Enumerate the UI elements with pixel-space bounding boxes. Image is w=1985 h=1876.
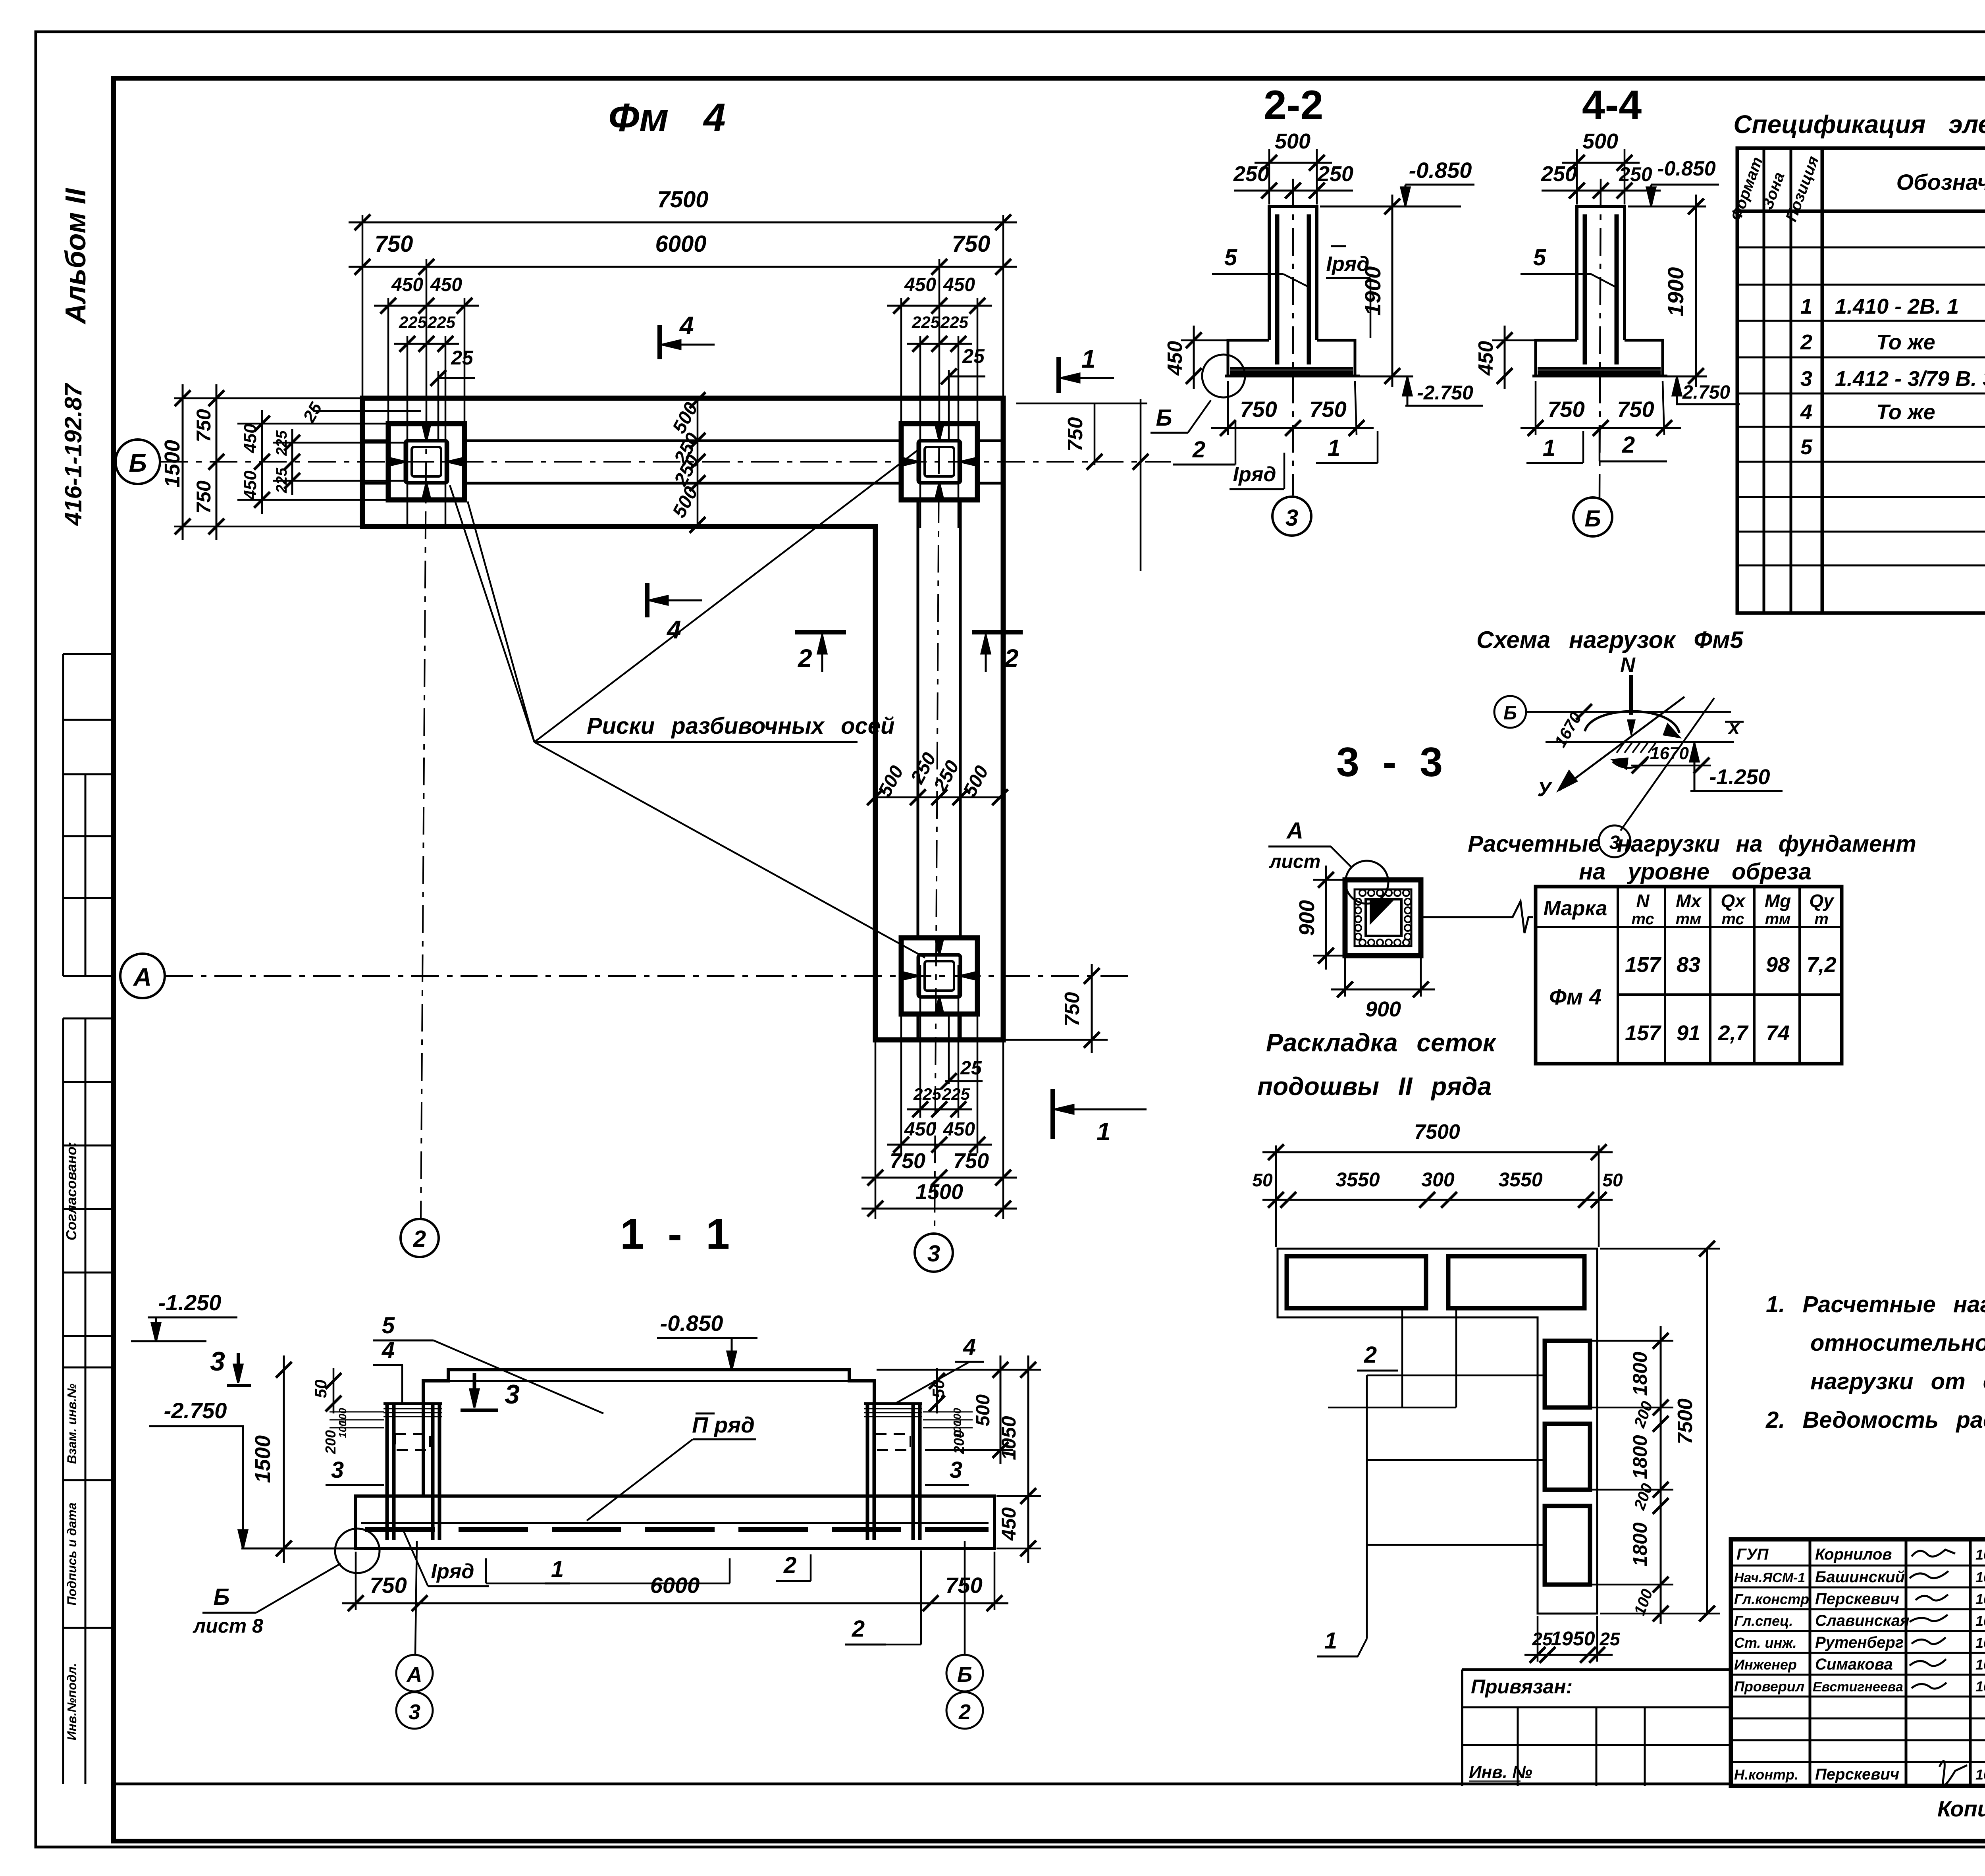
plan hstrip mid labels 500 250 250 500 rotated — [697, 400, 699, 525]
plan riski leader lines — [450, 451, 925, 958]
plan axis 2 dashdot — [421, 413, 426, 1218]
svg-text:Ст. инж.: Ст. инж. — [1734, 1635, 1797, 1651]
svg-text:П ряд: П ряд — [692, 1412, 755, 1437]
pad center arrows A3 — [900, 972, 918, 980]
svg-text:Привязан:: Привязан: — [1471, 1675, 1573, 1698]
svg-text:2: 2 — [783, 1552, 796, 1578]
svg-text:Подпись и дата: Подпись и дата — [65, 1502, 79, 1605]
svg-text:500: 500 — [1275, 129, 1310, 153]
pad center arrows B2 — [387, 457, 405, 466]
svg-text:1. Расчетные нагрузки на ф: 1. Расчетные нагрузки на фундамент Фм4 д… — [1766, 1292, 1985, 1317]
svg-text:6000: 6000 — [655, 231, 706, 257]
2-2 footing outline — [1225, 340, 1360, 376]
svg-text:N: N — [1620, 654, 1636, 677]
svg-text:3: 3 — [950, 1457, 962, 1483]
1-1 dim 1500 left — [283, 1355, 285, 1563]
svg-text:То же: То же — [1876, 400, 1935, 424]
plan dim 25 right — [949, 376, 985, 378]
plan axis B dashdot — [160, 461, 1171, 463]
svg-text:Корнилов: Корнилов — [1815, 1546, 1892, 1563]
svg-text:10.86: 10.86 — [1975, 1766, 1985, 1783]
raskladka2 dim 7500 right — [1706, 1249, 1708, 1614]
svg-text:7,2: 7,2 — [1806, 953, 1836, 977]
3-3 dim 900 bottom — [1331, 989, 1435, 991]
1-1 mark 3 center — [473, 1373, 476, 1406]
svg-text:Рутенберг: Рутенберг — [1815, 1634, 1904, 1651]
svg-text:Нач.ЯСМ-1: Нач.ЯСМ-1 — [1734, 1570, 1805, 1585]
svg-text:1800: 1800 — [1629, 1435, 1651, 1479]
schema axis circle B — [1494, 696, 1526, 728]
2-2 dim 250 250 — [1234, 190, 1353, 192]
svg-text:У: У — [1537, 778, 1553, 801]
svg-text:225: 225 — [274, 467, 290, 493]
3-3 innermost square — [1366, 899, 1401, 936]
plan column B3 — [918, 441, 960, 483]
svg-text:91: 91 — [1677, 1021, 1700, 1045]
svg-text:3: 3 — [409, 1700, 420, 1724]
svg-text:98: 98 — [1766, 953, 1790, 977]
svg-text:То же: То же — [1876, 330, 1935, 354]
svg-text:3: 3 — [331, 1457, 344, 1483]
svg-text:2: 2 — [1004, 644, 1019, 673]
2-2 dim 450 left — [1193, 326, 1195, 389]
axis circle 2 bottom — [401, 1219, 439, 1257]
plan column B2 — [405, 441, 447, 483]
svg-text:т: т — [1814, 910, 1829, 928]
raskladka2 mesh small 2 — [1545, 1424, 1590, 1490]
1-1 left column dashed box — [395, 1434, 430, 1450]
svg-text:Б: Б — [1156, 405, 1172, 431]
svg-text:750: 750 — [1061, 992, 1084, 1027]
svg-text:750: 750 — [1309, 397, 1346, 422]
svg-text:225: 225 — [274, 430, 290, 456]
1-1 bottom dims — [342, 1602, 1008, 1604]
svg-text:3: 3 — [210, 1346, 225, 1377]
svg-text:25: 25 — [960, 1058, 982, 1079]
svg-text:Гл.спец.: Гл.спец. — [1734, 1613, 1793, 1629]
1-1 detail circle B list8 — [335, 1529, 380, 1573]
svg-text:1: 1 — [1328, 435, 1340, 461]
raskladka2 mesh small 1 — [1545, 1341, 1590, 1407]
raskladka2 dim 7500 — [1262, 1151, 1613, 1153]
plan L-shape outline — [362, 398, 1003, 1040]
privyazan box — [1462, 1670, 1731, 1786]
plan dim 225 225 left — [291, 429, 293, 495]
svg-text:3: 3 — [505, 1379, 520, 1409]
4-4 dim 250 250 — [1542, 190, 1661, 192]
1-1 left column — [387, 1404, 439, 1540]
svg-text:тс: тс — [1631, 910, 1654, 928]
svg-text:Евстигнеева: Евстигнеева — [1813, 1679, 1903, 1695]
schema axis circle 3 — [1599, 825, 1630, 857]
svg-text:450: 450 — [1474, 341, 1497, 376]
svg-text:Б: Б — [957, 1663, 972, 1687]
svg-text:6000: 6000 — [650, 1573, 700, 1598]
2-2 dim 750 750 — [1211, 427, 1374, 429]
svg-text:225: 225 — [942, 1085, 970, 1103]
1-1 axis circle A — [396, 1655, 433, 1691]
svg-text:лист 8: лист 8 — [193, 1615, 263, 1637]
svg-text:7500: 7500 — [657, 187, 708, 212]
svg-text:10.86: 10.86 — [1975, 1656, 1985, 1673]
svg-text:5: 5 — [382, 1313, 395, 1338]
svg-text:25: 25 — [1532, 1629, 1553, 1649]
plan left extension lines — [174, 398, 421, 526]
svg-text:А: А — [133, 963, 152, 991]
svg-text:тм: тм — [1765, 910, 1791, 928]
svg-text:3550: 3550 — [1498, 1168, 1542, 1191]
svg-text:1: 1 — [551, 1556, 564, 1582]
svg-text:Qy: Qy — [1809, 891, 1835, 911]
plan dim 25 bottom — [945, 1080, 983, 1082]
1-1 slab mesh dashes — [365, 1527, 989, 1532]
svg-text:относительно его центра тяж: относительно его центра тяжести и включа… — [1810, 1330, 1985, 1356]
svg-text:5: 5 — [1800, 435, 1813, 459]
1-1 right column — [867, 1404, 920, 1540]
svg-text:750: 750 — [952, 231, 991, 257]
svg-text:450: 450 — [430, 274, 462, 295]
1-1 right column dashed box — [875, 1434, 910, 1450]
svg-text:1: 1 — [1543, 435, 1555, 461]
svg-text:750: 750 — [1240, 397, 1277, 422]
plan right end projection lines — [1094, 403, 1096, 465]
svg-text:500: 500 — [1582, 129, 1618, 153]
plan dim 7500 top — [349, 222, 1017, 224]
svg-text:50: 50 — [1252, 1170, 1273, 1190]
plan pad square B2 — [388, 424, 464, 500]
svg-text:Спецификация элементов монолит: Спецификация элементов монолитной констр… — [1733, 110, 1985, 139]
svg-text:Гл.констр: Гл.констр — [1734, 1591, 1809, 1607]
3-3 rebar bumps top — [1355, 890, 1411, 946]
svg-text:2: 2 — [852, 1616, 865, 1642]
svg-text:25: 25 — [1599, 1629, 1621, 1649]
plan dim 225 row — [394, 343, 459, 345]
plan dim 450 450 bottom — [887, 1144, 992, 1146]
svg-text:450: 450 — [904, 1119, 936, 1140]
1-1 axis circle 2 — [946, 1692, 983, 1729]
plan bottom pad extension lines — [875, 965, 1003, 1219]
svg-text:Б: Б — [1584, 506, 1601, 532]
plan dim 450 450 left — [261, 410, 263, 514]
svg-text:1: 1 — [1097, 1117, 1111, 1146]
plan top extension lines — [362, 215, 1003, 528]
svg-text:Расчетные нагрузки на фундамен: Расчетные нагрузки на фундамент — [1468, 831, 1916, 857]
svg-text:-0.850: -0.850 — [1657, 157, 1716, 180]
svg-text:225: 225 — [940, 313, 969, 332]
svg-text:250: 250 — [1317, 162, 1353, 186]
plan dim 450 row — [374, 305, 479, 307]
raskladka2 dim row — [1262, 1199, 1613, 1201]
svg-text:нагрузки от стен.: нагрузки от стен. — [1810, 1369, 1985, 1394]
plan axis A dashdot — [165, 975, 1135, 977]
svg-text:тс: тс — [1721, 910, 1744, 928]
svg-text:750: 750 — [953, 1149, 989, 1173]
schema ground hatch — [1617, 742, 1656, 753]
svg-text:Славинская: Славинская — [1815, 1612, 1910, 1629]
raskladka2 mesh wide 1 — [1287, 1256, 1426, 1308]
svg-text:2: 2 — [958, 1700, 971, 1724]
svg-text:Б: Б — [213, 1584, 229, 1610]
svg-text:-0.850: -0.850 — [660, 1311, 723, 1336]
loads table grid — [1536, 887, 1842, 1064]
2-2 circle 3 bottom — [1272, 497, 1311, 536]
svg-text:900: 900 — [1295, 900, 1319, 936]
svg-text:416-1-192.87: 416-1-192.87 — [60, 383, 87, 526]
svg-text:450: 450 — [998, 1507, 1020, 1541]
raskladka2 mesh small 3 — [1545, 1506, 1590, 1585]
svg-text:250: 250 — [1233, 162, 1269, 186]
plan axis 3 dashdot — [935, 397, 939, 1233]
svg-text:10.86: 10.86 — [1975, 1613, 1985, 1629]
section mark 1 upper right — [1056, 357, 1061, 393]
sig squiggles — [1910, 1550, 1967, 1785]
svg-text:1: 1 — [1324, 1628, 1337, 1654]
svg-text:4: 4 — [679, 311, 694, 340]
svg-text:750: 750 — [370, 1573, 407, 1598]
svg-text:5: 5 — [1533, 245, 1546, 270]
bottom strip line — [114, 1783, 1731, 1785]
svg-text:2-2: 2-2 — [1264, 82, 1323, 128]
3-3 dim 900 left — [1325, 866, 1327, 970]
svg-text:750: 750 — [375, 231, 413, 257]
svg-text:1670: 1670 — [1650, 744, 1689, 763]
svg-text:Проверил: Проверил — [1734, 1678, 1804, 1695]
4-4 footing mesh band — [1538, 367, 1661, 370]
svg-text:1900: 1900 — [1663, 267, 1688, 317]
svg-text:Iряд: Iряд — [431, 1560, 474, 1583]
svg-text:Башинский: Башинский — [1815, 1568, 1905, 1586]
svg-text:750: 750 — [193, 409, 215, 442]
svg-text:1: 1 — [1081, 345, 1096, 373]
plan dim 1500 left — [182, 384, 184, 540]
svg-text:50: 50 — [1602, 1170, 1623, 1190]
svg-text:10.86: 10.86 — [1975, 1591, 1985, 1607]
svg-text:157: 157 — [1625, 1021, 1662, 1045]
svg-text:-2.750: -2.750 — [1676, 382, 1730, 403]
plan dim 750 750 bottom — [861, 1177, 1017, 1179]
svg-text:3: 3 — [927, 1241, 940, 1267]
svg-text:Mg: Mg — [1765, 891, 1791, 911]
svg-text:3550: 3550 — [1336, 1168, 1380, 1191]
svg-text:83: 83 — [1677, 953, 1700, 977]
raskladka2 mesh wide 2 — [1448, 1256, 1584, 1308]
pad center arrows B3 — [900, 457, 918, 466]
svg-text:Н.контр.: Н.контр. — [1734, 1766, 1798, 1783]
svg-text:1.412 - 3/79 В. 3: 1.412 - 3/79 В. 3 — [1835, 367, 1985, 391]
svg-text:2: 2 — [413, 1226, 426, 1252]
svg-text:10.86: 10.86 — [1975, 1546, 1985, 1563]
svg-text:10.86: 10.86 — [1975, 1678, 1985, 1695]
axis circle B — [116, 440, 160, 484]
section mark 4 lower — [645, 583, 649, 617]
svg-text:-0.850: -0.850 — [1409, 158, 1472, 183]
svg-text:Копировал: Маиф: Копировал: Маиф — [1937, 1796, 1985, 1821]
svg-text:1500: 1500 — [915, 1180, 963, 1204]
2-2 centerline — [1292, 179, 1294, 496]
svg-text:Согласовано:: Согласовано: — [63, 1142, 79, 1241]
plan beam edge lines horizontal — [362, 441, 1003, 1040]
plan dim 225 225 bottom — [907, 1109, 972, 1111]
svg-text:4-4: 4-4 — [1582, 82, 1642, 128]
raskladka2 bottom dims — [1524, 1654, 1613, 1656]
svg-text:Инженер: Инженер — [1734, 1656, 1797, 1673]
section mark 1 lower right — [1050, 1089, 1055, 1139]
2-2 column rebars — [1275, 214, 1280, 364]
svg-text:225: 225 — [427, 313, 456, 332]
svg-text:Инв.№подл.: Инв.№подл. — [65, 1663, 79, 1741]
svg-text:1500: 1500 — [251, 1435, 275, 1483]
svg-text:А: А — [1286, 818, 1303, 844]
plan dim 1500 bottom — [861, 1208, 1017, 1210]
schema moment arc big — [1585, 711, 1679, 733]
svg-text:3: 3 — [1285, 505, 1298, 531]
svg-text:750: 750 — [890, 1149, 925, 1173]
svg-text:2. Ведомость расхода стали: 2. Ведомость расхода стали на Фм 4 см. л… — [1765, 1407, 1985, 1433]
4-4 circle B bottom — [1573, 497, 1612, 536]
svg-text:-2.750: -2.750 — [164, 1398, 227, 1423]
svg-text:Обозначение: Обозначение — [1896, 170, 1985, 195]
svg-text:225: 225 — [913, 1085, 942, 1103]
2-2 column — [1269, 206, 1317, 340]
svg-text:1800: 1800 — [1629, 1522, 1651, 1566]
raskladka2 right dims — [1660, 1326, 1662, 1624]
svg-text:Iряд: Iряд — [1233, 463, 1276, 486]
plan dim 25 left — [438, 377, 475, 379]
svg-text:1800: 1800 — [1629, 1352, 1651, 1396]
svg-text:10.86: 10.86 — [1975, 1635, 1985, 1651]
svg-text:250: 250 — [1619, 163, 1652, 185]
svg-text:ГУП: ГУП — [1736, 1546, 1769, 1563]
svg-text:225: 225 — [399, 313, 427, 332]
2-2 detail circle B — [1202, 355, 1245, 397]
svg-text:Риски разбивочных осей: Риски разбивочных осей — [587, 713, 894, 739]
svg-text:3 - 3: 3 - 3 — [1336, 739, 1443, 785]
svg-text:Б: Б — [129, 449, 146, 477]
svg-text:Перскевич: Перскевич — [1815, 1590, 1899, 1608]
svg-text:750: 750 — [1617, 397, 1654, 422]
svg-text:-1.250: -1.250 — [158, 1290, 222, 1315]
svg-text:2,7: 2,7 — [1717, 1021, 1749, 1045]
svg-text:2: 2 — [1192, 437, 1205, 463]
4-4 footing outline — [1532, 340, 1667, 376]
axis circle A — [120, 954, 165, 998]
sig table columns — [1809, 1539, 1812, 1786]
schema x axis — [1546, 741, 1734, 743]
1-1 footing slab — [356, 1496, 994, 1548]
svg-text:74: 74 — [1766, 1021, 1790, 1045]
svg-text:на уровне обреза: на уровне обреза — [1579, 859, 1812, 885]
svg-text:-1.250: -1.250 — [1709, 765, 1770, 789]
svg-text:4: 4 — [963, 1334, 976, 1360]
1-1 axis circle B — [946, 1655, 983, 1691]
svg-text:N: N — [1636, 891, 1650, 911]
svg-text:тм: тм — [1676, 910, 1702, 928]
4-4 dim 450 left — [1504, 326, 1506, 389]
svg-text:450: 450 — [241, 470, 260, 500]
svg-text:1950: 1950 — [1551, 1627, 1595, 1650]
4-4 column rebars — [1583, 214, 1587, 364]
svg-text:лист: лист — [1269, 851, 1321, 872]
section mark 2 left — [795, 630, 846, 634]
1-1 dim 500 right — [1000, 1355, 1002, 1464]
3-3 weld wedge — [1370, 898, 1396, 925]
1-1 axis leaders to circles — [415, 1541, 417, 1654]
plan column A3 — [918, 955, 960, 997]
plan dim 6000 row — [349, 266, 1017, 268]
4-4 centerline — [1600, 179, 1601, 498]
svg-text:Инв. №: Инв. № — [1469, 1762, 1532, 1782]
svg-text:450: 450 — [391, 274, 423, 295]
2-2 footing mesh band — [1230, 367, 1353, 370]
svg-text:1050: 1050 — [998, 1416, 1020, 1460]
svg-text:2: 2 — [798, 644, 812, 673]
plan dim 750 750 left — [216, 384, 218, 540]
svg-text:7500: 7500 — [1414, 1120, 1460, 1143]
1-1 axis circle 3 — [396, 1692, 433, 1729]
plan strip mid labels 500 250 250 500 — [875, 796, 1000, 798]
svg-text:50: 50 — [929, 1380, 948, 1398]
svg-text:2: 2 — [1364, 1342, 1377, 1368]
plan pad square B3 — [901, 424, 977, 500]
3-3 inner square — [1355, 889, 1411, 946]
svg-text:Фм 4: Фм 4 — [1549, 984, 1601, 1009]
svg-text:4: 4 — [1800, 400, 1812, 424]
svg-text:300: 300 — [1421, 1168, 1455, 1191]
svg-text:25: 25 — [962, 345, 985, 367]
2-2 dim 500 — [1255, 162, 1332, 164]
svg-text:500: 500 — [973, 1394, 994, 1426]
svg-text:750: 750 — [1548, 397, 1584, 422]
svg-text:2: 2 — [1622, 432, 1635, 458]
sig table rows — [1731, 1565, 1985, 1567]
svg-text:900: 900 — [1365, 997, 1401, 1021]
4-4 column — [1577, 206, 1625, 340]
svg-text:5: 5 — [1224, 245, 1237, 270]
svg-text:750: 750 — [1064, 417, 1087, 452]
svg-text:250: 250 — [1541, 162, 1577, 186]
svg-text:750: 750 — [193, 480, 215, 514]
svg-text:Б: Б — [1503, 703, 1517, 724]
svg-text:4: 4 — [666, 615, 681, 644]
schema moment arc small — [1613, 756, 1648, 768]
svg-text:Марка: Марка — [1544, 897, 1607, 920]
svg-text:450: 450 — [943, 274, 975, 295]
svg-text:подошвы II ряда: подошвы II ряда — [1257, 1072, 1492, 1101]
schema y axis diagonal — [1559, 697, 1684, 790]
svg-text:Mx: Mx — [1676, 891, 1702, 911]
svg-text:Симакова: Симакова — [1815, 1656, 1893, 1673]
svg-text:Фм 4: Фм 4 — [608, 95, 725, 140]
1-1 wall outline — [423, 1370, 874, 1496]
svg-text:1500: 1500 — [160, 440, 184, 488]
4-4 dim 1900 — [1695, 195, 1697, 387]
svg-text:25: 25 — [451, 347, 474, 369]
svg-text:x: x — [1727, 716, 1740, 738]
svg-text:450: 450 — [943, 1119, 975, 1140]
svg-text:Перскевич: Перскевич — [1815, 1766, 1899, 1783]
svg-text:450: 450 — [904, 274, 936, 295]
1-1 dim 1050 right — [1027, 1355, 1029, 1510]
svg-text:7500: 7500 — [1674, 1398, 1697, 1444]
svg-text:Qx: Qx — [1721, 891, 1746, 911]
sig table texts — [1734, 1546, 1985, 1783]
plan pad square A3 — [901, 938, 977, 1014]
4-4 dim 750 750 — [1521, 427, 1681, 429]
svg-text:А: А — [406, 1663, 422, 1687]
svg-text:3: 3 — [1800, 367, 1812, 391]
plan beam edge lines vertical — [917, 500, 919, 938]
svg-text:Раскладка сеток: Раскладка сеток — [1266, 1028, 1497, 1057]
